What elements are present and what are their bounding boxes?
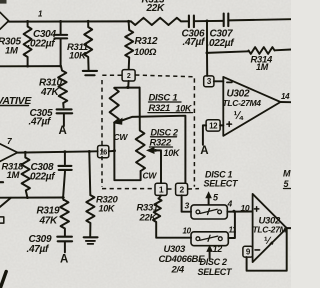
label C306 [182,28,205,39]
resistor R311 [84,21,92,70]
svg-text:22K: 22K [139,213,158,224]
capacitor C305 [57,109,73,126]
capacitor C304 [54,22,67,67]
node junction R305 bottom [26,65,29,68]
svg-text:R312: R312 [135,36,158,47]
edge artifact connector stub left [0,182,4,223]
svg-text:CW: CW [114,132,129,142]
label C309 value .47uF [27,244,50,255]
node junction R314 tap [206,51,209,54]
svg-text:SELECT: SELECT [204,179,240,189]
capacitor C309 [57,237,72,253]
dashed trimmer enclosure [102,75,199,189]
svg-text:11: 11 [229,226,238,235]
pin 12 box of U302 [206,120,223,131]
plus sign U302b [254,207,258,211]
potentiometer R321 [110,88,119,123]
minus sign U302b [255,249,260,251]
analog switch U303a (pins 3-4) [191,205,227,219]
label C307 [210,29,233,40]
label U302 (bottom amp) [259,215,282,226]
label R318 [2,161,25,172]
label C308 value .022uF [28,172,57,183]
label R322 value 10K [164,148,181,158]
label DISC 2 SELECT [198,257,234,277]
pin 7 label [7,136,13,146]
node junction R318 bottom [26,196,29,199]
label C305 value .47uF [29,116,52,127]
pin 12 label [213,244,223,254]
wire node to pin3 box [206,53,208,76]
edge artifact bottom-left diagonal [1,272,7,288]
label R312 [135,36,158,47]
label R331 value 22K [139,213,158,224]
label DISC 2 (R322) [151,127,179,137]
pin 10 label (op-amp) [241,203,250,213]
pin 4 label [227,199,233,209]
svg-text:10K: 10K [69,51,87,62]
label cropped M at right edge [283,169,291,179]
wire U302b output [287,227,291,229]
node junction C306-C307 [206,20,209,23]
label R312 value 100ohm [134,47,157,58]
node junction R318 top [24,151,27,154]
svg-text:16: 16 [100,147,108,156]
svg-text:1M: 1M [5,46,19,57]
label 1/4 (bottom amp) [264,235,274,247]
svg-text:1M: 1M [256,62,269,72]
svg-text:10: 10 [183,227,192,236]
svg-text:.47µf: .47µf [29,116,52,127]
label R314 value 1M [256,62,269,72]
node junction R320 top [88,150,91,153]
wire pot top rail [114,87,139,89]
svg-text:2: 2 [127,73,131,80]
wire U302b feedback loop [247,228,287,271]
wiper arrow R322 [146,147,161,183]
svg-text:DISC 2: DISC 2 [151,127,179,137]
svg-text:CW: CW [143,171,158,181]
capacitor C307 [224,14,291,27]
node junction C304 top [59,20,62,23]
edge artifact top-left [0,0,7,4]
node junction C304 bottom [59,65,62,68]
wire R320 drop [89,152,90,196]
node junction 16-box to R321 leg [113,149,116,152]
resistor R310 [58,66,67,107]
wire A2 output rail [18,151,98,152]
wiper arrow R321 [114,116,186,183]
pin 9 box of U302b [243,246,253,257]
label R319 value 47K [39,215,59,226]
ground under R320 [84,237,98,244]
op-amp U302a triangle [223,77,280,136]
control arrow pin 5 [205,191,212,204]
op-amp A2 (cropped at left edge) [0,144,18,162]
svg-text:¼: ¼ [234,110,244,122]
node junction C308 top [63,150,66,153]
label TLC-27M4 [223,98,262,108]
svg-text:M: M [283,169,291,179]
label R320 [96,195,119,206]
svg-text:.022µf: .022µf [28,39,57,50]
resistor R313 [131,18,188,25]
svg-text:DISC 2: DISC 2 [200,257,228,267]
node A under C305 [59,125,67,137]
node A under C309 [60,253,68,265]
label R305 [0,37,21,48]
svg-text:22K: 22K [146,3,166,14]
label R321 10K [148,103,193,114]
svg-text:47K: 47K [39,215,59,226]
wire junction down to switch2 out [228,211,235,238]
label DISC 1 (R321) [149,93,182,104]
resistor R314 [249,47,291,54]
svg-text:A: A [60,253,68,265]
label C309 [29,234,52,245]
wire diagonal to crop edge [0,198,11,207]
plus sign U302a [227,122,232,127]
label C304 [33,29,56,40]
label R314 [251,54,274,65]
node junction R311 top [87,20,90,23]
pin 1 label [38,10,43,19]
svg-text:.022µf: .022µf [28,172,57,183]
label TLC-27M (cropped) [253,225,288,235]
svg-text:10K: 10K [164,148,181,158]
minus sign U302a [227,81,232,83]
node junction switch1 output [232,210,235,213]
node junction R305 top [26,20,29,23]
label R319 [37,205,60,216]
capacitor C308 [58,152,71,198]
svg-text:10K: 10K [99,204,116,214]
svg-text:47K: 47K [40,87,60,98]
pin 14 label [281,92,290,101]
wire U302a output [281,101,292,103]
resistor R312 [125,21,133,69]
node A under U302a [200,145,208,157]
label CW for R322 [143,171,158,181]
wire box2 to switch pin 3 [182,195,191,211]
op-amp A1 (cropped at left edge) [0,12,9,29]
label 1/4 (top amp) [234,110,244,122]
pin 5 label [213,193,219,203]
svg-text:A: A [59,125,67,137]
potentiometer R322 [136,88,145,171]
svg-text:CD4066BE: CD4066BE [159,254,206,265]
svg-text:14: 14 [281,92,290,101]
label R322 [150,138,173,149]
resistor R331 [153,195,191,237]
label DERIVATIVE (cropped) [0,95,32,107]
control arrow pin 12 [206,245,213,258]
svg-text:12: 12 [213,244,223,254]
svg-text:TLC-27M4: TLC-27M4 [223,98,262,108]
wire to R314 [207,51,249,53]
wire feedback rail A1 [0,65,61,67]
svg-text:2/4: 2/4 [171,265,185,276]
label CD4066BE [159,254,206,265]
svg-text:TLC-27M: TLC-27M [253,225,288,235]
node junction R312 top [127,20,130,23]
svg-text:12: 12 [209,121,218,130]
svg-text:1M: 1M [7,170,21,181]
ground under R311 [83,71,97,75]
pin 3 label [185,201,190,211]
svg-text:100Ω: 100Ω [134,47,157,58]
label R310 value 47K [40,87,60,98]
node junction pot top [126,86,129,89]
svg-text:SELECT: SELECT [198,267,234,277]
svg-text:4: 4 [227,199,233,209]
resistor R319 [60,198,69,236]
pin 11 label [229,226,238,235]
label C307 value .022uF [207,38,236,49]
label U303 [164,244,187,255]
label R305 value 1M [5,46,19,57]
label 2/4 [171,265,185,276]
connector box 16 [98,146,115,158]
label R313 value 22K [146,3,166,14]
node junction C308/R319 [61,196,64,199]
resistor R318 [21,152,30,197]
label R311 [67,42,88,53]
label U302 (top amp) [227,88,250,99]
svg-text:.47µf: .47µf [183,37,206,48]
capacitor C306 [189,16,224,28]
label CW for R321 [114,132,129,142]
label R310 [39,78,62,89]
wire lower feedback rail [0,197,64,199]
label DISC 1 SELECT [204,170,240,189]
label cropped 5 at right edge [284,179,292,189]
pin 10 label (switch) [183,227,192,236]
label R331 [137,202,159,213]
resistor R320 [86,195,94,237]
label C308 [31,162,54,173]
op-amp U302b triangle [253,194,287,262]
analog switch U303b (pins 10-11) [191,232,228,246]
wire pin12 to node A [203,125,206,144]
resistor R305 [24,22,32,67]
label R318 value 1M [7,170,21,181]
label C306 value .47uF [183,37,206,48]
wire C306 node down [206,21,208,53]
label R311 value 10K [69,51,87,62]
svg-text:.47µf: .47µf [27,244,50,255]
svg-text:10: 10 [241,203,250,213]
wire switch1 to op-amp + [227,211,252,213]
label C304 value .022uF [28,39,57,50]
label R320 value 10K [99,204,116,214]
pin 3 box of U302 [204,76,224,87]
svg-text:3: 3 [185,201,190,211]
svg-text:.022µf: .022µf [207,38,236,49]
connector box pin 2 (CD4066 inline) [122,70,135,88]
wire R321 bottom leg [114,123,140,181]
label C305 [30,108,53,119]
wire output rail of A1 [9,20,131,22]
label R313 (cropped) [142,0,165,6]
connector box 2 [176,183,188,195]
connector box 1 [155,183,167,195]
svg-text:A: A [200,145,208,157]
